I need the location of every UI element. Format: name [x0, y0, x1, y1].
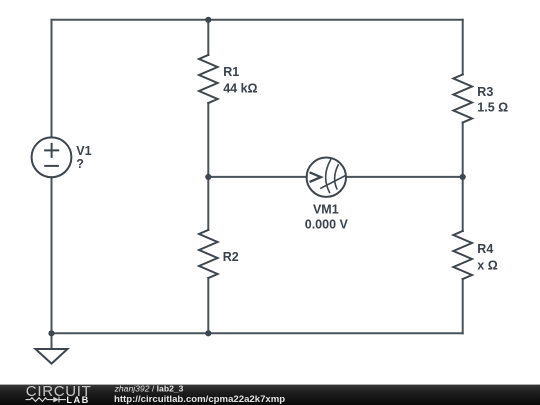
svg-text:?: ?	[76, 157, 84, 171]
ground	[36, 349, 68, 364]
node junction bottom middle	[205, 330, 211, 336]
svg-text:1.5 Ω: 1.5 Ω	[477, 100, 508, 114]
node junction right middle	[460, 174, 466, 180]
svg-text:R4: R4	[477, 242, 493, 256]
wire right vertical mid	[462, 123, 464, 232]
svg-text:0.000 V: 0.000 V	[305, 217, 349, 231]
voltage source V1	[32, 137, 72, 177]
wire middle horizontal left	[208, 176, 306, 178]
svg-text:http://circuitlab.com/cpma22a2: http://circuitlab.com/cpma22a2k7xmp	[114, 394, 285, 405]
node junction top middle	[205, 17, 211, 23]
footer bar	[0, 385, 540, 405]
svg-text:zhanj392 / lab2_3: zhanj392 / lab2_3	[114, 383, 184, 393]
wire left vertical lower	[51, 177, 53, 333]
resistor R1	[199, 55, 218, 103]
node junction bottom left	[48, 330, 54, 336]
svg-text:R1: R1	[223, 65, 239, 79]
wire middle horizontal right	[346, 176, 463, 178]
voltmeter VM1	[307, 158, 346, 197]
wire bottom horizontal	[52, 332, 463, 334]
svg-text:x Ω: x Ω	[477, 258, 497, 272]
wire middle vertical mid	[207, 103, 209, 230]
wire middle vertical lower	[207, 278, 209, 333]
svg-text:V1: V1	[76, 144, 91, 158]
wire top horizontal	[52, 19, 463, 21]
wire ground stem	[51, 333, 53, 349]
svg-text:LAB: LAB	[66, 395, 89, 405]
svg-text:R3: R3	[477, 85, 493, 99]
logo resistor-diode glyph	[26, 397, 67, 403]
resistor R4	[453, 231, 472, 279]
node junction middle	[205, 174, 211, 180]
wire middle vertical upper	[207, 20, 209, 55]
svg-text:R2: R2	[223, 250, 239, 264]
resistor R3	[453, 75, 472, 123]
wire right vertical lower	[462, 279, 464, 333]
svg-text:44 kΩ: 44 kΩ	[223, 82, 257, 96]
resistor R2	[199, 230, 218, 278]
svg-text:VM1: VM1	[313, 203, 339, 217]
wire right vertical upper	[462, 20, 464, 75]
wire left vertical upper	[51, 20, 53, 138]
